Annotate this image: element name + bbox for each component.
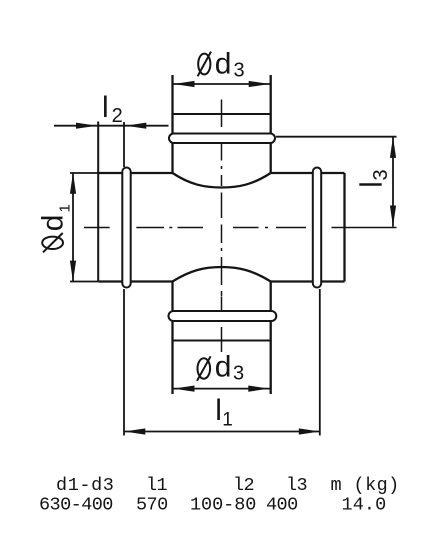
svg-text:1: 1: [222, 410, 233, 431]
dimension l2: bead extension line: [123, 122, 125, 167]
svg-text:m (kg): m (kg): [331, 475, 400, 496]
svg-text:l1: l1: [146, 475, 168, 496]
top branch bead (rolled ring): [169, 134, 275, 144]
bottom branch bead (rolled ring): [169, 311, 277, 321]
bottom branch saddle weld curve: [173, 267, 271, 282]
svg-text:l3: l3: [286, 475, 307, 496]
dimension ød3 (bottom): dimension line: [173, 388, 271, 390]
dimension l1: left extension line: [123, 289, 125, 436]
svg-text:d: d: [215, 48, 232, 81]
svg-text:2: 2: [112, 105, 123, 127]
svg-text:1: 1: [57, 204, 74, 212]
main pipe bottom edge: [98, 280, 344, 282]
arrowhead ød3 bottom right: [248, 386, 269, 392]
svg-text:400: 400: [266, 495, 298, 516]
right end bead (rolled ring): [313, 168, 321, 288]
bottom branch right wall: [270, 282, 272, 395]
arrowhead l3 up: [390, 137, 396, 158]
arrowhead ød3 bottom left: [174, 386, 195, 392]
svg-text:570: 570: [136, 495, 168, 516]
arrowhead ød3 top left: [174, 81, 195, 87]
arrowhead l3 down: [390, 206, 396, 227]
label ød3 (top): diameter symbol: [198, 52, 211, 77]
svg-text:3: 3: [233, 363, 244, 385]
top branch left wall: [171, 75, 173, 173]
svg-text:630-400: 630-400: [39, 495, 113, 516]
vertical centerline (branch axis): [221, 100, 223, 353]
dimension l1: right extension line: [319, 289, 321, 436]
svg-text:3: 3: [370, 169, 392, 180]
label ød1 (rotated): diameter symbol: [42, 233, 63, 252]
svg-text:l: l: [215, 394, 222, 427]
dimension l3: dimension line: [392, 137, 394, 227]
svg-text:d: d: [215, 351, 232, 384]
dimension ød3 (top): dimension line: [173, 83, 271, 85]
top branch collar seam: [173, 113, 271, 115]
left end bead (rolled ring): [122, 168, 130, 288]
arrowhead l1 left: [124, 428, 145, 434]
dimension l3: top extension line: [276, 136, 397, 138]
arrowhead l2 right: [125, 123, 146, 129]
svg-text:l2: l2: [233, 475, 254, 496]
main pipe right end edge: [343, 173, 345, 282]
arrowhead l1 right: [299, 428, 320, 434]
arrowhead l2 left: [76, 123, 97, 129]
dimension l1: dimension line: [124, 431, 320, 433]
svg-text:3: 3: [234, 60, 245, 82]
centerline extension to l3 dimension: [332, 227, 397, 229]
main pipe left end edge (also l2 extension line): [97, 122, 99, 282]
label l3 (rotated): l stroke: [359, 183, 381, 186]
svg-text:d: d: [37, 215, 70, 232]
bottom branch collar seam: [173, 340, 271, 342]
top branch saddle weld curve: [173, 173, 271, 188]
dimension l2: dimension line: [54, 125, 169, 127]
arrowhead ød3 top right: [249, 81, 270, 87]
horizontal centerline (main pipe axis): [84, 227, 306, 229]
arrowhead ød1 down: [70, 261, 76, 282]
bottom branch left wall: [171, 282, 173, 395]
top branch right wall: [270, 75, 272, 173]
svg-text:l: l: [102, 91, 109, 124]
svg-text:14.0: 14.0: [342, 495, 387, 516]
main pipe top edge: [98, 172, 344, 174]
dimension ød1: extension lines: [70, 173, 98, 282]
svg-text:d1-d3: d1-d3: [56, 475, 115, 496]
label ød3 (bottom): diameter symbol: [197, 356, 211, 381]
dimension ød1: dimension line: [72, 173, 74, 282]
arrowhead ød1 up: [70, 173, 76, 194]
svg-text:100-80: 100-80: [190, 495, 256, 516]
